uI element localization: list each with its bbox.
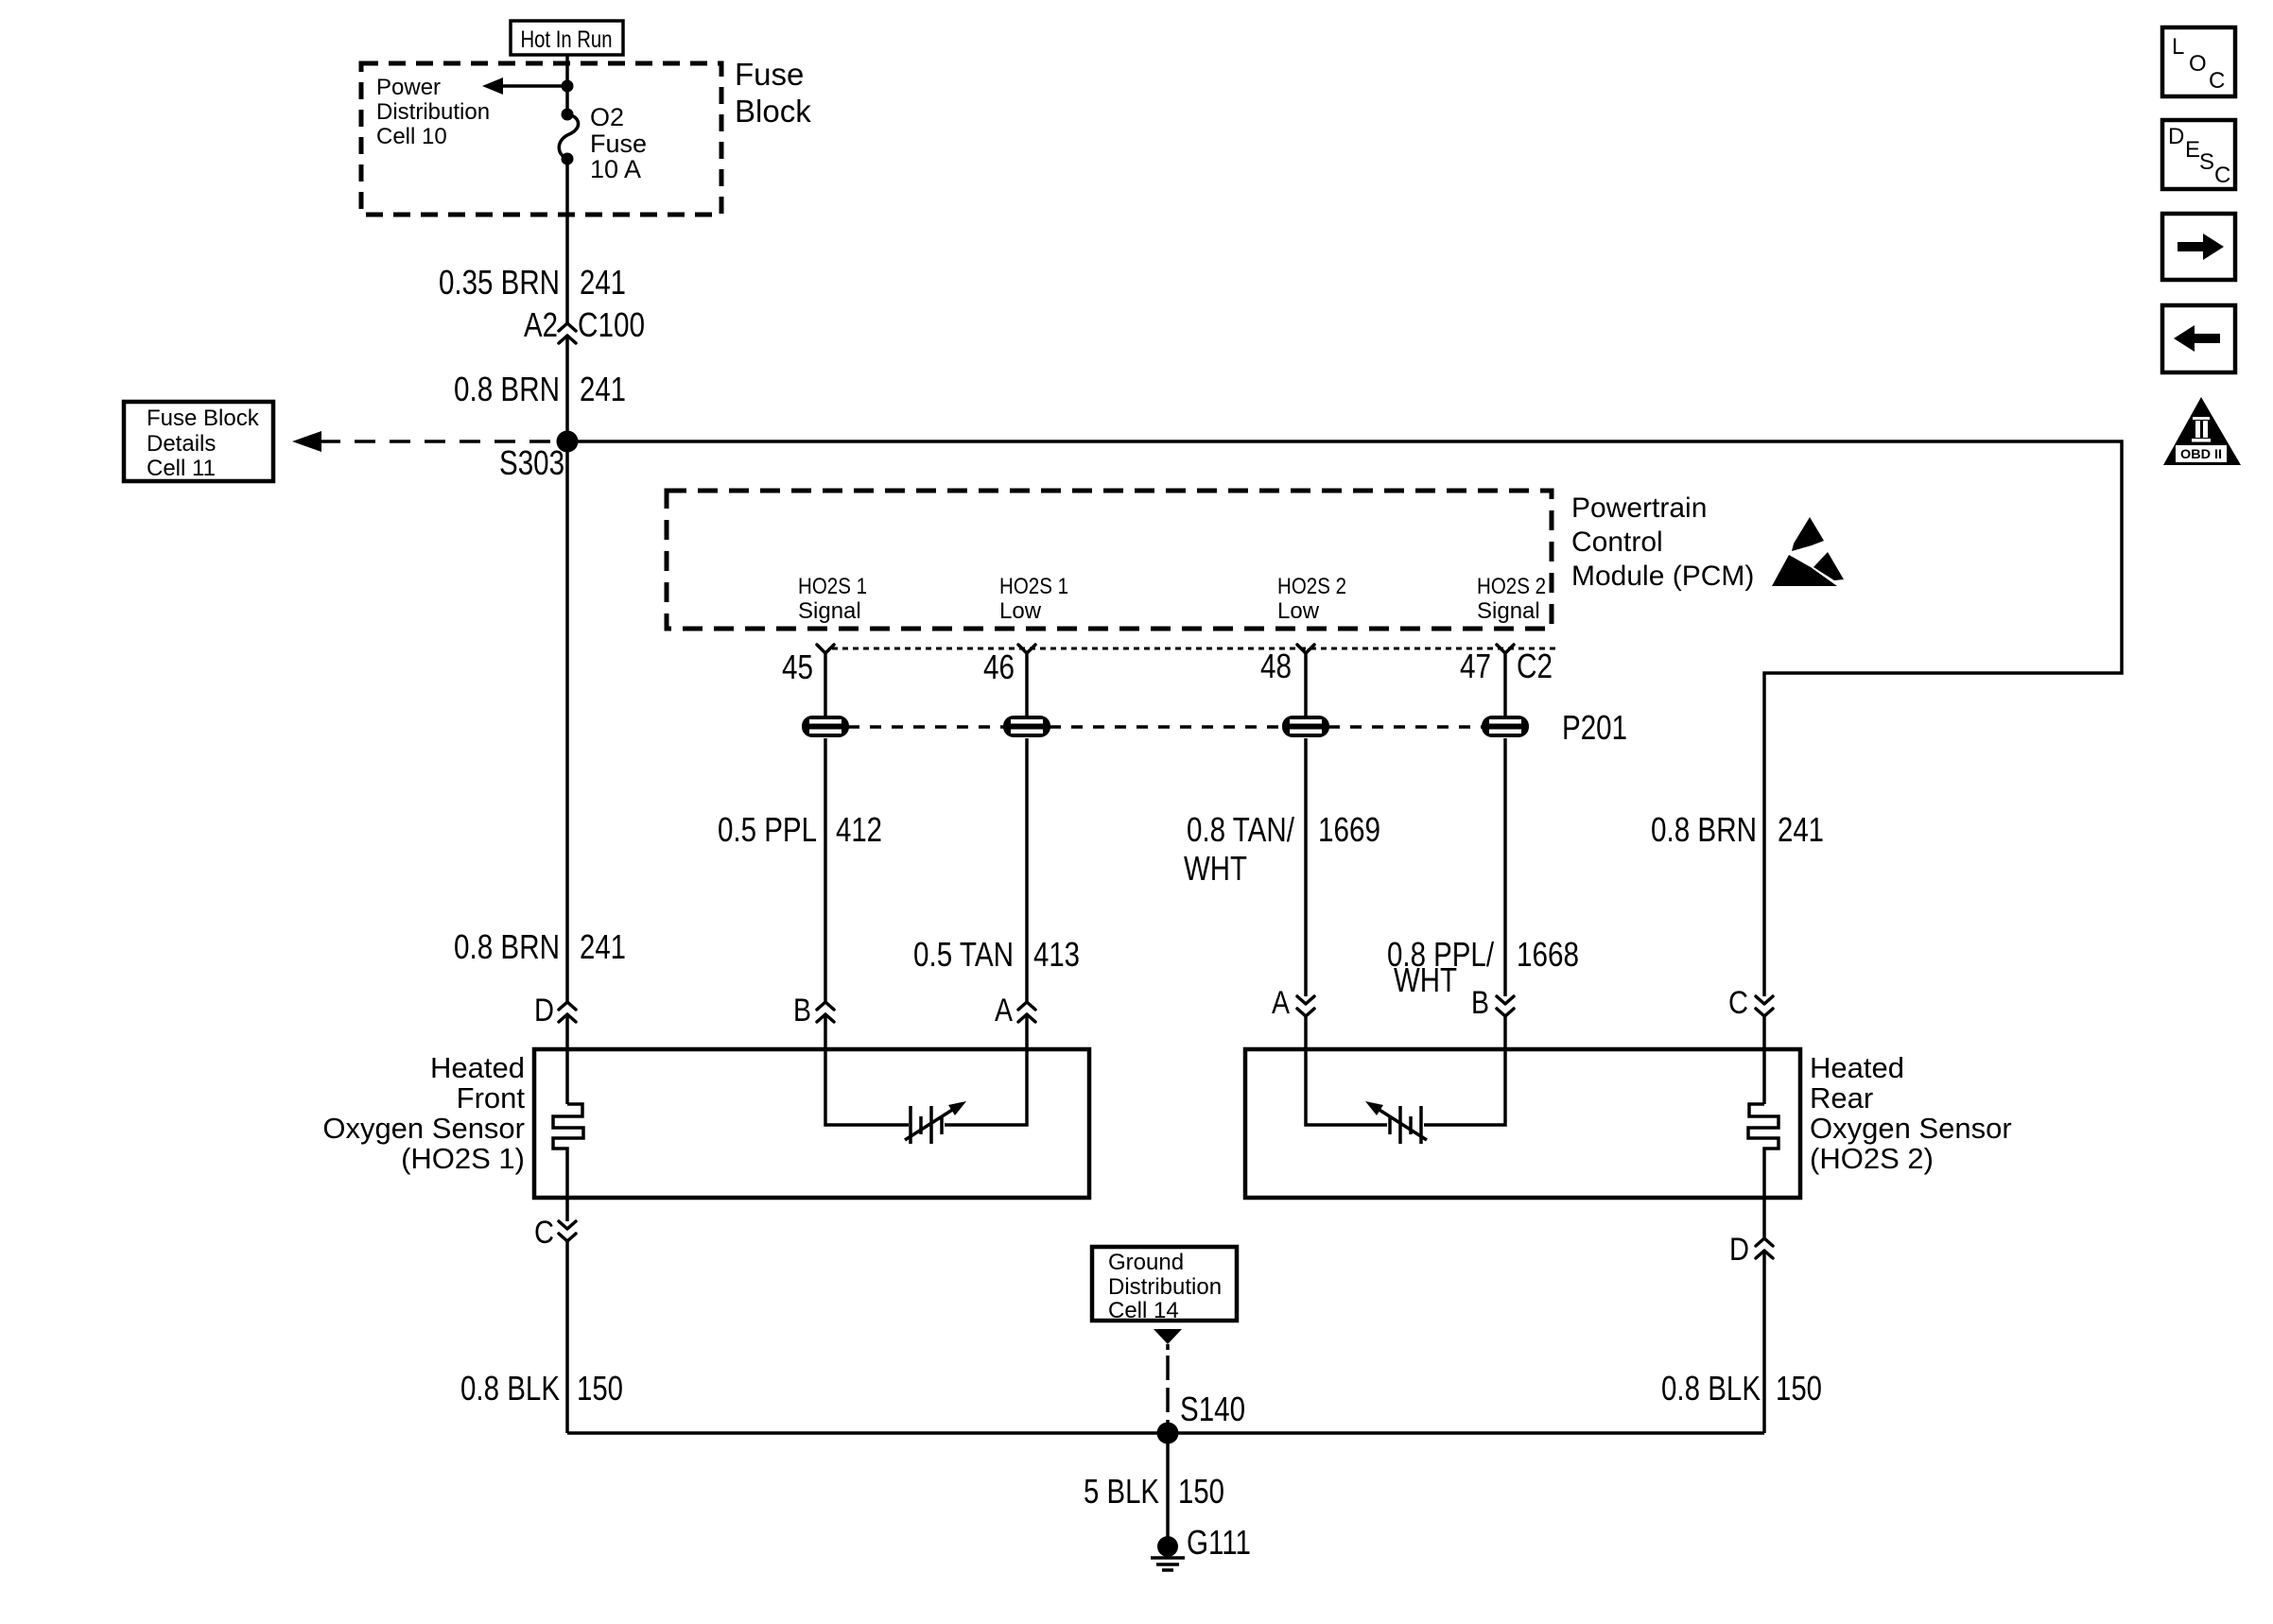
svg-text:Module (PCM): Module (PCM)	[1571, 561, 1754, 592]
svg-text:0.5 TAN: 0.5 TAN	[913, 935, 1014, 974]
svg-text:Oxygen Sensor: Oxygen Sensor	[1810, 1112, 2012, 1145]
svg-text:150: 150	[577, 1369, 623, 1408]
svg-text:241: 241	[580, 927, 626, 966]
svg-text:413: 413	[1033, 935, 1080, 974]
svg-text:C: C	[2214, 163, 2230, 188]
svg-text:C2: C2	[1517, 647, 1553, 685]
svg-text:(HO2S 2): (HO2S 2)	[1810, 1142, 1934, 1175]
svg-text:241: 241	[580, 263, 626, 302]
svg-text:B: B	[793, 993, 811, 1028]
svg-text:L: L	[2172, 34, 2184, 60]
svg-text:Signal: Signal	[798, 598, 861, 624]
svg-text:0.8 BRN: 0.8 BRN	[1651, 810, 1757, 849]
svg-text:Low: Low	[1277, 598, 1320, 624]
svg-text:0.35 BRN: 0.35 BRN	[439, 263, 560, 302]
svg-text:Signal: Signal	[1477, 598, 1540, 624]
svg-text:0.8 BLK: 0.8 BLK	[460, 1369, 560, 1408]
svg-text:HO2S 2: HO2S 2	[1477, 574, 1546, 599]
svg-text:Heated: Heated	[1810, 1051, 1904, 1084]
svg-text:C: C	[534, 1215, 554, 1251]
svg-text:HO2S 1: HO2S 1	[798, 574, 867, 599]
svg-text:S303: S303	[499, 443, 564, 482]
svg-text:412: 412	[836, 810, 882, 849]
svg-text:46: 46	[983, 648, 1015, 686]
svg-text:HO2S 1: HO2S 1	[999, 574, 1068, 599]
svg-text:150: 150	[1776, 1369, 1822, 1408]
svg-text:S140: S140	[1180, 1390, 1245, 1428]
svg-text:P201: P201	[1562, 708, 1627, 747]
svg-text:241: 241	[1778, 810, 1824, 849]
svg-text:WHT: WHT	[1394, 960, 1457, 999]
svg-text:0.8 BLK: 0.8 BLK	[1661, 1369, 1761, 1408]
svg-text:Details: Details	[147, 431, 216, 457]
svg-text:OBD II: OBD II	[2180, 446, 2222, 461]
svg-text:48: 48	[1260, 647, 1292, 685]
svg-text:HO2S 2: HO2S 2	[1277, 574, 1346, 599]
svg-text:0.5 PPL: 0.5 PPL	[718, 810, 817, 849]
svg-text:A: A	[1272, 985, 1290, 1021]
svg-text:Distribution: Distribution	[376, 99, 490, 125]
svg-text:C: C	[1728, 985, 1748, 1021]
svg-text:G111: G111	[1187, 1523, 1251, 1562]
svg-text:Fuse: Fuse	[735, 57, 804, 92]
svg-text:10 A: 10 A	[590, 155, 641, 183]
svg-text:(HO2S 1): (HO2S 1)	[401, 1142, 525, 1175]
svg-text:D: D	[1729, 1232, 1749, 1268]
svg-text:D: D	[534, 993, 554, 1028]
svg-text:Rear: Rear	[1810, 1081, 1873, 1114]
svg-text:Ground: Ground	[1108, 1250, 1184, 1275]
svg-text:241: 241	[580, 370, 626, 408]
svg-text:S: S	[2199, 149, 2214, 175]
svg-text:A2: A2	[524, 305, 558, 344]
svg-text:1669: 1669	[1318, 810, 1380, 849]
svg-text:1668: 1668	[1517, 935, 1579, 974]
svg-text:C: C	[2209, 68, 2225, 94]
svg-text:A: A	[995, 993, 1013, 1028]
svg-text:47: 47	[1460, 647, 1491, 685]
svg-text:45: 45	[782, 648, 813, 686]
svg-text:Fuse Block: Fuse Block	[147, 406, 260, 431]
svg-text:Control: Control	[1571, 527, 1663, 558]
svg-text:Cell 10: Cell 10	[376, 124, 447, 149]
svg-text:D: D	[2168, 124, 2184, 149]
svg-text:Cell 11: Cell 11	[147, 456, 216, 481]
svg-text:0.8 BRN: 0.8 BRN	[454, 370, 560, 408]
svg-text:Powertrain: Powertrain	[1571, 492, 1707, 524]
svg-text:Distribution: Distribution	[1108, 1274, 1222, 1300]
svg-text:Heated: Heated	[430, 1051, 525, 1084]
svg-text:Fuse: Fuse	[590, 130, 647, 158]
svg-text:Power: Power	[376, 75, 441, 100]
svg-text:O: O	[2189, 51, 2207, 77]
svg-text:Hot In Run: Hot In Run	[521, 26, 613, 53]
svg-text:Block: Block	[735, 94, 811, 129]
svg-text:B: B	[1471, 985, 1489, 1021]
svg-text:0.8 BRN: 0.8 BRN	[454, 927, 560, 966]
svg-text:Oxygen Sensor: Oxygen Sensor	[322, 1112, 525, 1145]
svg-text:Cell 14: Cell 14	[1108, 1298, 1179, 1323]
svg-text:150: 150	[1178, 1472, 1224, 1511]
svg-text:Low: Low	[999, 598, 1042, 624]
svg-text:0.8 TAN/: 0.8 TAN/	[1187, 810, 1294, 849]
svg-text:C100: C100	[578, 305, 645, 344]
svg-text:E: E	[2185, 137, 2200, 163]
svg-text:Front: Front	[457, 1081, 526, 1114]
svg-text:WHT: WHT	[1184, 849, 1247, 888]
svg-text:O2: O2	[590, 103, 624, 131]
svg-text:5 BLK: 5 BLK	[1084, 1472, 1159, 1511]
